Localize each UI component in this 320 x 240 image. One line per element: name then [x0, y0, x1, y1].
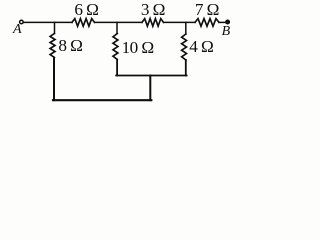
svg-text:4 Ω: 4 Ω — [189, 37, 213, 56]
stub junction to R10 — [116, 22, 118, 33]
wire R3 to R7 — [164, 21, 196, 23]
svg-text:3 Ω: 3 Ω — [141, 0, 165, 19]
resistor R8 8ohm — [50, 34, 55, 58]
stub junction to R8 — [54, 22, 56, 33]
resistor R6 6ohm — [72, 19, 95, 27]
wire R10 leg down — [116, 60, 118, 76]
wire A to R6 — [23, 21, 72, 23]
wire R4 leg down — [185, 60, 187, 76]
node B terminal — [226, 20, 230, 24]
wire riser mid rail to bottom rail — [149, 76, 151, 101]
wire R8 leg down — [53, 58, 55, 101]
resistor R4 4ohm — [182, 34, 187, 60]
svg-text:8 Ω: 8 Ω — [58, 36, 82, 55]
svg-text:6 Ω: 6 Ω — [74, 0, 98, 19]
resistor R10 10ohm — [113, 34, 118, 60]
svg-text:A: A — [12, 22, 22, 37]
svg-text:7 Ω: 7 Ω — [195, 0, 219, 19]
wire R6 to R3 — [95, 21, 143, 23]
svg-text:B: B — [222, 24, 231, 39]
wire R7 to B — [219, 21, 226, 23]
wire mid rail R10 to R4 — [116, 75, 186, 77]
resistor R7 7ohm — [195, 19, 219, 27]
node A terminal — [20, 20, 24, 24]
wire bottom rail — [53, 99, 151, 101]
stub junction to R4 — [185, 22, 187, 34]
svg-text:10 Ω: 10 Ω — [122, 38, 154, 57]
resistor R3 3ohm — [142, 19, 164, 27]
